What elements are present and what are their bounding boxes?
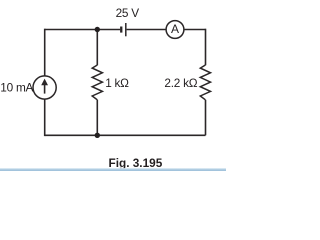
wire: battery to ammeter bbox=[127, 29, 167, 31]
node A junction dot bbox=[95, 27, 100, 32]
svg-text:2.2 kΩ: 2.2 kΩ bbox=[164, 76, 197, 90]
node B junction dot bbox=[95, 133, 100, 138]
ammeter A bbox=[166, 21, 184, 39]
label: 25 V bbox=[116, 6, 140, 20]
label: 2.2 kOhm bbox=[164, 76, 197, 90]
wire: ammeter to top-right corner bbox=[184, 29, 206, 31]
wire: middle branch, resistor R1 down to node B bbox=[96, 100, 98, 136]
battery V1 25 V bbox=[120, 23, 126, 36]
svg-text:Fig. 3.195: Fig. 3.195 bbox=[109, 156, 163, 170]
caption: Fig. 3.195 bbox=[109, 156, 163, 170]
svg-text:1 kΩ: 1 kΩ bbox=[105, 76, 129, 90]
wire: right side, resistor R2 down to bottom-right corner bbox=[205, 100, 207, 136]
label: 10 mA bbox=[0, 80, 33, 94]
wire: top-left segment from left corner to node A bbox=[45, 29, 98, 31]
wire: left side, bottom corner up to current source I1 bbox=[44, 99, 46, 136]
resistor R1 1 kOhm bbox=[92, 65, 102, 100]
wire: left side, current source up to top-left corner bbox=[44, 29, 46, 76]
wire: bottom, node B to bottom-left corner bbox=[45, 134, 98, 136]
svg-text:25 V: 25 V bbox=[116, 6, 140, 20]
svg-text:10 mA: 10 mA bbox=[0, 80, 33, 94]
svg-text:A: A bbox=[171, 22, 179, 36]
wire: right side, top-right corner down to resistor R2 bbox=[205, 29, 207, 65]
wire: bottom, right corner to node B bbox=[97, 134, 205, 136]
current source I1 10 mA bbox=[33, 76, 56, 99]
resistor R2 2.2 kOhm bbox=[200, 65, 210, 100]
wire: middle branch, node A down to resistor R1 bbox=[96, 30, 98, 66]
label: 1 kOhm bbox=[105, 76, 129, 90]
wire: node A to battery left plate bbox=[97, 29, 120, 31]
